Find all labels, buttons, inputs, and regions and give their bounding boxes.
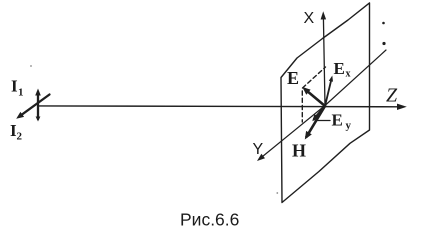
vector E: [305, 89, 325, 106]
label I2: [10, 121, 23, 143]
vector Ex component: [325, 79, 332, 107]
vector Ey component: [314, 106, 325, 119]
faint speck below plane bottom-left: [276, 192, 278, 194]
svg-text:H: H: [292, 141, 306, 161]
label Ex: [334, 59, 351, 80]
svg-text:Рис.6.6: Рис.6.6: [180, 210, 239, 230]
dashed projection from E tip toward X axis (parallel to Y): [303, 67, 326, 88]
axis Y line through origin (extends up-right past plane): [325, 50, 386, 106]
axis Z arrowhead: [397, 104, 407, 110]
axis Z wire: [38, 105, 399, 108]
dot 1: [382, 22, 385, 25]
svg-text:Z: Z: [386, 85, 398, 107]
dashed projection from E tip downward (parallel to X): [301, 91, 303, 122]
svg-text:2: 2: [17, 131, 23, 143]
svg-text:x: x: [346, 69, 351, 80]
svg-text:E: E: [287, 68, 299, 88]
svg-text:I: I: [11, 77, 18, 96]
plane of observation (parallelogram screen): [281, 3, 370, 203]
dot 2: [382, 42, 385, 45]
svg-text:Y: Y: [253, 141, 264, 158]
dipole I1 vertical double arrow: [37, 92, 39, 119]
axis X: [323, 17, 325, 106]
svg-text:1: 1: [18, 87, 24, 99]
svg-text:X: X: [304, 10, 315, 27]
vector H: [307, 106, 326, 137]
faint speck upper-left: [30, 65, 32, 67]
svg-text:E: E: [334, 59, 345, 78]
svg-text:y: y: [346, 120, 352, 132]
dipole I2 diagonal arrow: [19, 95, 50, 117]
svg-text:E: E: [332, 111, 343, 130]
label I1: [11, 77, 24, 99]
label Ey with leader line: [317, 120, 331, 122]
